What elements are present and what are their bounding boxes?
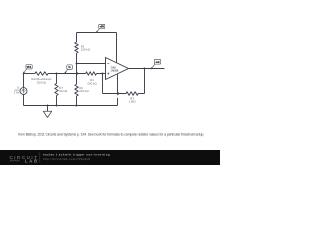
wire op-amp V- drop — [117, 74, 119, 93]
wire feedback bottom left — [103, 93, 127, 95]
svg-text:LM358: LM358 — [111, 70, 119, 73]
wire feedback left riser — [102, 74, 104, 94]
node R2 bottom dot — [76, 105, 78, 107]
current source I1 — [14, 85, 27, 94]
op-amp U1 OA6 LM358 — [106, 58, 129, 80]
wire R1 top stub — [76, 33, 78, 43]
wire op-amp V+ drop — [116, 33, 118, 63]
wire minus input — [77, 63, 106, 65]
svg-text:220 kΩ: 220 kΩ — [81, 48, 91, 52]
wire ground rail — [24, 105, 118, 107]
node flag VF1 — [22, 65, 32, 74]
wire op-amp output — [129, 68, 165, 70]
svg-text:220 kΩ: 220 kΩ — [79, 89, 89, 93]
svg-text:VF1: VF1 — [27, 66, 32, 69]
resistor R4 — [86, 72, 98, 86]
wire feedback bottom right — [138, 93, 144, 95]
junction arrow at divider column — [76, 72, 79, 76]
footer bar — [0, 150, 220, 165]
node flag in — [64, 65, 73, 74]
wire source top stub — [23, 74, 25, 88]
wire divider column through in-rail — [76, 64, 78, 85]
node output junction dot — [144, 68, 146, 70]
wire ground rail right riser — [117, 98, 119, 106]
node R7 bottom dot — [56, 105, 58, 107]
resistor Rail Resistance — [31, 72, 52, 85]
svg-text:200 kΩ: 200 kΩ — [37, 80, 47, 84]
resistor R7 — [55, 74, 68, 106]
wire R1 bottom stub — [76, 53, 78, 63]
svg-text:from Bishop, 2011 Circuits and: from Bishop, 2011 Circuits and Systems p… — [18, 132, 204, 136]
wire in rail left — [24, 73, 35, 75]
node flag out — [150, 59, 161, 69]
resistor R3 — [126, 92, 138, 104]
node flag +5V — [95, 24, 104, 33]
svg-text:out: out — [156, 61, 160, 64]
footer divider — [39, 153, 41, 163]
ground — [43, 106, 51, 118]
svg-text:LAB: LAB — [25, 159, 38, 164]
CircuitLab logo — [10, 155, 38, 163]
svg-text:90 kΩ: 90 kΩ — [59, 89, 68, 93]
wire +5V top rail — [77, 32, 117, 34]
wire R2 bottom stub — [76, 96, 78, 106]
svg-text:http://circuitlab.com/c45q6u8: http://circuitlab.com/c45q6u8 — [43, 157, 90, 161]
wire in rail middle — [48, 73, 86, 75]
node feedback junction dot on plus wire — [102, 73, 104, 75]
svg-text:+5V: +5V — [100, 26, 105, 29]
resistor R1 — [75, 42, 91, 53]
node ground stub dot — [47, 105, 49, 107]
svg-text:1 MΩ: 1 MΩ — [128, 100, 136, 104]
svg-text:200 kΩ: 200 kΩ — [87, 82, 97, 86]
wire source bottom stub — [23, 95, 25, 106]
wire R4 to plus input — [97, 73, 106, 75]
wire feedback right riser — [144, 69, 146, 94]
node minus junction dot — [76, 63, 78, 65]
svg-text:2 Hz: 2 Hz — [14, 91, 20, 95]
junction arrow at feedback wire — [117, 92, 120, 96]
node R7 top junction dot — [56, 73, 58, 75]
resistor R2 — [75, 84, 90, 96]
